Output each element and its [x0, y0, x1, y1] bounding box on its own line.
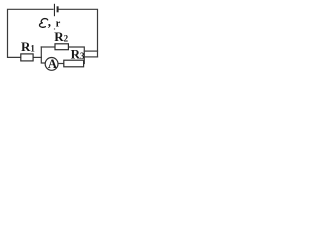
svg-text:R1: R1 — [21, 39, 35, 54]
label EMF script E — [40, 19, 48, 28]
resistor R1 — [21, 54, 33, 61]
svg-text:R3: R3 — [71, 46, 85, 61]
ammeter A — [45, 58, 58, 71]
wire top-right segment — [59, 9, 98, 57]
wire R1 to junction — [33, 56, 41, 58]
wire ammeter to R3 — [58, 63, 64, 65]
svg-text:A: A — [48, 57, 57, 71]
wire R2 row left — [41, 46, 55, 48]
wire top-left segment — [8, 9, 54, 57]
wire connector upper — [84, 50, 97, 52]
scan speck — [54, 28, 55, 30]
svg-text:r: r — [56, 19, 61, 30]
wire R2 row right — [69, 47, 84, 64]
wire junction vertical — [41, 47, 45, 63]
resistor R2 — [55, 44, 68, 50]
wire connector lower — [84, 56, 97, 58]
battery E, r — [54, 4, 57, 16]
resistor R3 — [64, 60, 84, 67]
svg-text:R2: R2 — [54, 29, 68, 44]
svg-text:,: , — [48, 14, 51, 29]
